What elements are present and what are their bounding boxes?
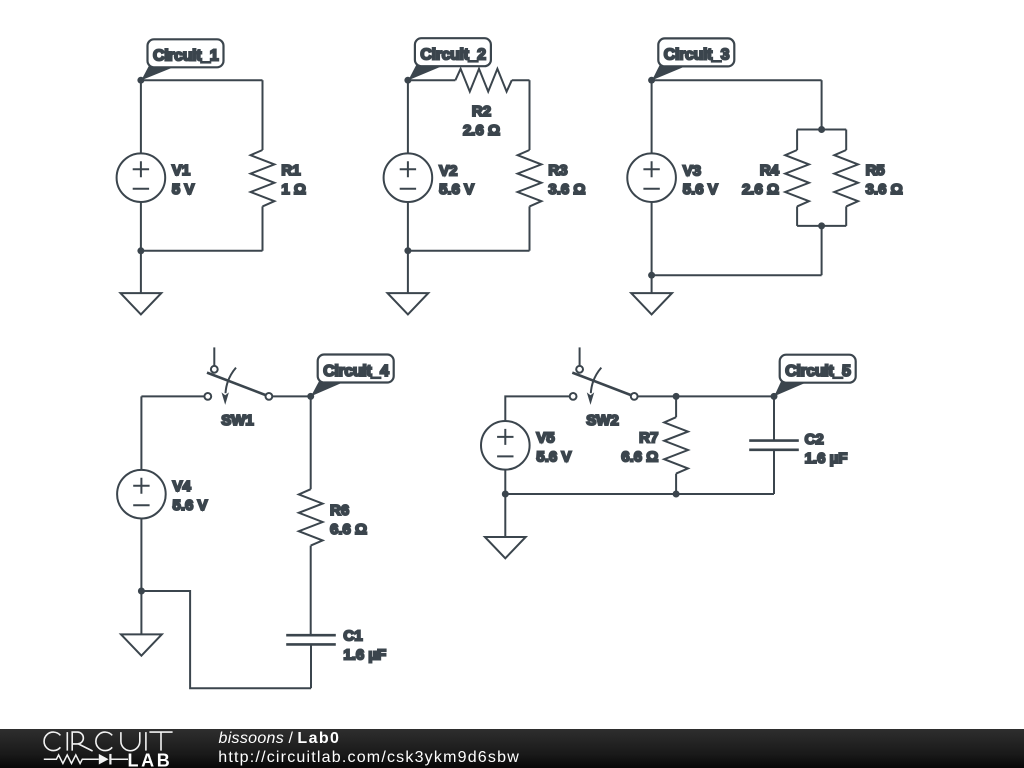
wire: Circuit 1 top rail	[141, 79, 263, 81]
wire: Circuit 3 top rail	[652, 79, 822, 81]
svg-text:R5: R5	[866, 162, 885, 179]
resistor R2 (horizontal)	[455, 69, 511, 139]
svg-text:Circuit_4: Circuit_4	[323, 363, 389, 380]
label bubble Circuit_2	[408, 38, 491, 80]
voltage source V4 5.6 V	[117, 396, 207, 591]
ground: Circuit 3	[631, 275, 672, 314]
footer text line 2: url	[218, 749, 520, 767]
ground: Circuit 5	[485, 494, 526, 558]
svg-text:R3: R3	[548, 162, 567, 179]
svg-text:5.6 V: 5.6 V	[683, 181, 718, 198]
voltage source V5 5.6 V	[481, 421, 571, 494]
label bubble Circuit_1	[141, 39, 223, 80]
wire: C1 bottom lead	[310, 644, 312, 688]
wire: parallel bottom bar	[797, 225, 846, 227]
wire: Circuit 5 bottom rail	[505, 493, 774, 495]
footer text line 1: user / project	[219, 730, 341, 748]
resistor R4	[742, 150, 809, 206]
voltage source V3 5.6 V	[627, 80, 718, 275]
svg-text:Circuit_3: Circuit_3	[664, 47, 730, 64]
resistor R5	[834, 150, 902, 206]
node: R7 bottom junction	[673, 491, 680, 498]
svg-text:2.6 Ω: 2.6 Ω	[742, 181, 779, 198]
CircuitLab logo: word CIRCUIT	[44, 732, 173, 751]
node: Circuit 5 top junction	[771, 393, 778, 400]
wire: C2 bottom lead	[773, 450, 775, 494]
node: Circuit 2 bottom junction	[404, 247, 411, 254]
resistor R1	[251, 150, 306, 206]
wire: parallel top bar	[797, 129, 846, 131]
wire: feed down to parallel pair	[821, 80, 823, 129]
voltage source V1 5 V	[117, 80, 195, 251]
svg-text:6.6 Ω: 6.6 Ω	[330, 521, 367, 538]
wire: Circuit 2 top-left to R2	[408, 79, 456, 81]
node: parallel top junction	[818, 126, 825, 133]
label bubble Circuit_4	[311, 355, 394, 397]
switch SW1	[204, 347, 272, 428]
wire: Circuit 1 bottom rail	[141, 250, 263, 252]
svg-text:LAB: LAB	[128, 750, 173, 768]
svg-text:R7: R7	[639, 429, 658, 446]
wire: R5 top lead	[845, 130, 847, 151]
wire: R7 bottom lead	[675, 474, 677, 494]
label bubble Circuit_3	[652, 38, 734, 80]
wire: R1 top lead from top rail	[262, 80, 264, 150]
svg-text:V2: V2	[439, 162, 457, 179]
svg-text:Circuit_2: Circuit_2	[420, 47, 486, 64]
wire: R1 bottom lead	[262, 206, 264, 250]
svg-text:SW1: SW1	[221, 412, 254, 429]
wire: V5 top to switch SW2	[505, 396, 569, 421]
svg-text:1 Ω: 1 Ω	[281, 181, 306, 198]
wire: Circuit 2 bottom rail	[408, 250, 530, 252]
wire: R3 bottom lead	[529, 206, 531, 250]
node: parallel bottom junction	[818, 222, 825, 229]
node: R7 top junction	[673, 393, 680, 400]
footer bar	[0, 729, 1024, 768]
svg-text:R1: R1	[281, 162, 300, 179]
wire: R4 bottom lead	[796, 206, 798, 226]
CircuitLab logo: resistor-diode line	[44, 754, 128, 765]
switch SW2	[570, 347, 638, 429]
svg-text:1.6 µF: 1.6 µF	[343, 646, 386, 663]
svg-text:V1: V1	[172, 162, 190, 179]
voltage source V2 5.6 V	[384, 80, 475, 251]
svg-text:R4: R4	[760, 162, 780, 179]
wire: R5 bottom lead	[845, 206, 847, 226]
wire: top node down to R6	[310, 396, 312, 489]
svg-text:1.6 µF: 1.6 µF	[805, 450, 848, 467]
svg-text:R2: R2	[472, 103, 491, 120]
svg-text:5.6 V: 5.6 V	[439, 181, 474, 198]
svg-text:3.6 Ω: 3.6 Ω	[866, 181, 903, 198]
resistor R6	[299, 489, 367, 545]
svg-text:V4: V4	[173, 478, 192, 495]
svg-text:5 V: 5 V	[172, 181, 195, 198]
wire: R2 to top-right corner	[512, 79, 530, 81]
node: Circuit 1 top-left	[137, 77, 144, 84]
ground: Circuit 2	[388, 251, 429, 315]
node: Circuit 2 top-left	[404, 77, 411, 84]
wire: SW1 to Circuit 4 top node	[272, 395, 310, 397]
wire: R6 to C1	[310, 546, 312, 636]
capacitor C1 1.6 uF	[286, 627, 386, 663]
svg-text:Circuit_1: Circuit_1	[153, 48, 219, 65]
svg-text:5.6 V: 5.6 V	[173, 497, 208, 514]
node: Circuit 1 bottom junction	[137, 247, 144, 254]
wire: parallel pair down to bottom rail	[821, 226, 823, 275]
resistor R7	[621, 417, 688, 473]
node: V4 bottom junction	[138, 588, 145, 595]
svg-text:V3: V3	[683, 162, 701, 179]
svg-text:Circuit_5: Circuit_5	[785, 363, 851, 380]
wire: R3 top lead	[529, 80, 531, 150]
wire: R4 top lead	[796, 130, 798, 151]
label bubble Circuit_5	[774, 355, 856, 397]
svg-text:V5: V5	[536, 429, 554, 446]
svg-text:3.6 Ω: 3.6 Ω	[548, 181, 585, 198]
svg-text:2.6 Ω: 2.6 Ω	[463, 122, 500, 139]
wire: R7 top lead	[675, 396, 677, 417]
ground: Circuit 4	[121, 591, 162, 656]
svg-text:5.6 V: 5.6 V	[536, 448, 571, 465]
svg-text:C1: C1	[343, 627, 362, 644]
node: Circuit 3 bottom junction	[648, 272, 655, 279]
node: Circuit 4 top junction	[307, 393, 314, 400]
wire: Circuit 3 bottom rail	[652, 274, 822, 276]
svg-text:R6: R6	[330, 502, 349, 519]
node: Circuit 3 top-left	[648, 77, 655, 84]
wire: SW2 to C2 top node	[638, 395, 774, 397]
wire: C2 top lead	[773, 396, 775, 440]
capacitor C2 1.6 uF	[749, 431, 847, 467]
node: V5 bottom junction	[502, 491, 509, 498]
svg-text:SW2: SW2	[586, 412, 619, 429]
wire: V4 top to switch SW1	[141, 395, 204, 397]
svg-text:C2: C2	[805, 431, 824, 448]
svg-text:6.6 Ω: 6.6 Ω	[621, 448, 658, 465]
ground: Circuit 1	[121, 251, 162, 315]
wire: bottom return path	[141, 591, 311, 688]
resistor R3	[518, 150, 586, 206]
